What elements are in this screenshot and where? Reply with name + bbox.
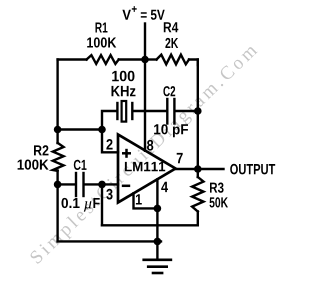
- wire top rail left of R1: [58, 58, 87, 60]
- ground stem: [156, 241, 158, 259]
- label pin 7: [177, 153, 183, 163]
- wire C1 left lead: [58, 183, 75, 185]
- op-amp + input mark: [122, 152, 131, 155]
- label 2K (R4): [165, 38, 178, 48]
- wire R2 bottom: [56, 171, 58, 185]
- label R3: [210, 183, 224, 193]
- label KHz (crystal): [112, 86, 136, 96]
- node junction pin3: [98, 181, 106, 189]
- node junction ground rail: [154, 238, 162, 246]
- wire R1 to V+ node: [119, 58, 145, 60]
- node junction R2/C1/ground: [54, 181, 62, 189]
- wire V+ node to R4: [145, 58, 157, 60]
- wire right vertical rail: [197, 60, 199, 170]
- label C1: [74, 160, 87, 170]
- ground bar 1: [142, 258, 172, 261]
- wire bias row: [58, 128, 102, 130]
- wire crystal branch: [102, 111, 116, 130]
- crystal Y1 body: [122, 101, 127, 122]
- label pin 3: [106, 189, 112, 200]
- wire R3 top lead: [197, 169, 199, 177]
- node junction C2 out: [194, 107, 202, 115]
- wire crystal to C2 (crossover, no join): [133, 110, 166, 112]
- label pin 1: [136, 194, 142, 204]
- wire R3 bottom to feedback row: [102, 212, 198, 226]
- ground bar 3: [152, 272, 164, 275]
- label 100K (R1): [87, 37, 116, 47]
- label R1: [96, 23, 108, 33]
- label C2: [163, 86, 175, 96]
- node junction pin2: [98, 126, 106, 134]
- capacitor C1 left plate: [75, 173, 77, 196]
- crystal Y1 left plate: [116, 103, 118, 119]
- node junction output: [194, 165, 202, 173]
- crystal Y1 right plate: [131, 103, 133, 119]
- node junction left bias: [54, 126, 62, 134]
- label LM111 (U1): [125, 162, 165, 171]
- wire V+ supply stub: [144, 24, 146, 60]
- resistor R3: [192, 177, 203, 212]
- label pin 4: [161, 182, 168, 192]
- watermark SimplestCircuitDiagram.Com: [29, 42, 261, 267]
- label OUTPUT: [230, 164, 275, 175]
- wire pin 7 output lead: [176, 168, 224, 170]
- label 50K (R3): [210, 197, 229, 207]
- wire pin 4 down: [156, 179, 158, 241]
- capacitor C2 right plate: [173, 99, 175, 124]
- label mu of uF (C1): [84, 201, 92, 211]
- label = 5V: [141, 10, 165, 20]
- wire pin 3 row: [85, 183, 118, 185]
- ground bar 2: [147, 265, 168, 268]
- wire left vertical: [56, 60, 58, 144]
- label + superscript: [132, 6, 137, 12]
- label 100K (R2): [18, 160, 49, 170]
- resistor R2: [53, 143, 64, 171]
- label R4: [164, 22, 179, 32]
- wire ground rail: [58, 240, 161, 242]
- wire pin3 node down: [101, 184, 103, 225]
- op-amp U1 LM111 triangle: [118, 135, 176, 203]
- wire ground left vertical: [56, 184, 58, 241]
- wire R4 right to corner down: [189, 60, 198, 66]
- node junction pin1/pin4: [154, 205, 162, 213]
- capacitor C1 right plate: [82, 173, 84, 196]
- capacitor C2 left plate: [166, 99, 168, 124]
- label 100 (crystal): [112, 71, 134, 82]
- label R2: [34, 145, 49, 155]
- wire pin 8 V+ lead: [144, 60, 146, 151]
- label pin 2: [106, 139, 112, 150]
- node junction V+: [141, 56, 149, 64]
- op-amp - input mark: [122, 185, 130, 188]
- label 0.1 (C1): [62, 198, 80, 208]
- wire C2 to output rail: [176, 110, 198, 112]
- label V of V+ = 5V: [122, 10, 130, 20]
- resistor R4: [157, 55, 190, 65]
- wire pin 2 branch: [102, 130, 118, 153]
- wire pin 1 lead: [134, 193, 158, 208]
- label pin 8: [147, 140, 153, 151]
- resistor R1: [87, 55, 119, 64]
- label 10 pF (C2): [154, 124, 188, 137]
- label F of uF (C1): [93, 198, 99, 208]
